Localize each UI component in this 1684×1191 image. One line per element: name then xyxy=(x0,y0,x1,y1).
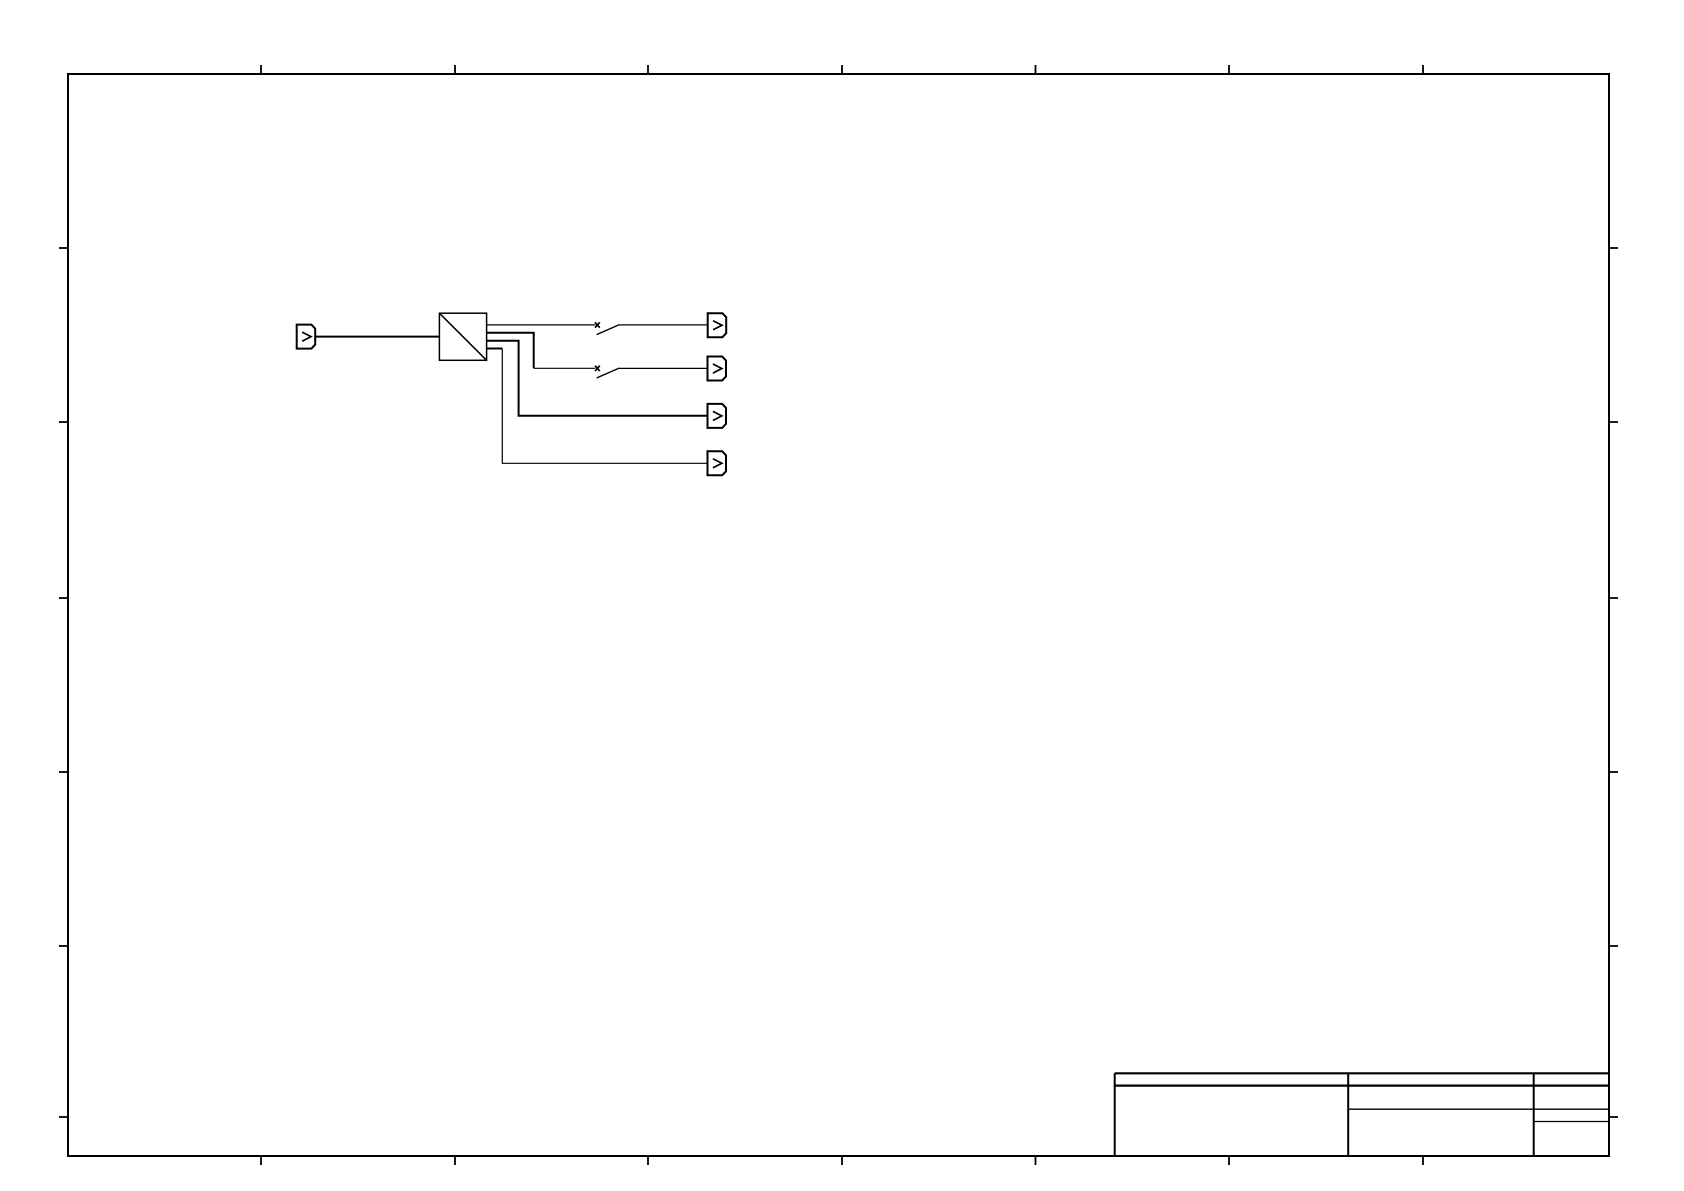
wire W4a: thin run to connector X4 xyxy=(502,349,707,464)
interruption point arrow X3 xyxy=(708,404,727,428)
switch S2 blade xyxy=(597,368,620,378)
wire W2a: thin run to switch S2 xyxy=(534,367,596,369)
interruption point arrow X2 xyxy=(708,357,727,381)
switch S1 blade xyxy=(597,325,620,335)
wire W3: converter to connector X3 (thick) xyxy=(487,341,708,416)
interruption point arrow X4 xyxy=(708,451,727,475)
wire W2: converter to switch S2 (thick feed) xyxy=(487,333,534,369)
zone tick marks bottom edge xyxy=(261,1156,1423,1165)
wire W4: converter stub (thick) xyxy=(487,348,503,350)
title block xyxy=(1115,1073,1609,1156)
dc/dc converter box T1 xyxy=(439,313,486,360)
interruption point arrow X1 xyxy=(708,313,727,337)
wire W1b: switch S1 to connector X1 xyxy=(619,324,707,326)
zone tick marks right edge xyxy=(1609,248,1618,1117)
wire W2b: switch S2 to connector X2 xyxy=(619,367,707,369)
wire W1: converter to switch S1 xyxy=(487,324,596,326)
switch S1 contact x-mark xyxy=(595,322,600,327)
zone tick marks left edge xyxy=(59,248,68,1117)
zone tick marks top edge xyxy=(261,65,1423,74)
switch S2 contact x-mark xyxy=(595,366,600,371)
interruption point arrow X0 (source, left) xyxy=(297,325,316,349)
wire W0: source to converter xyxy=(315,336,439,338)
